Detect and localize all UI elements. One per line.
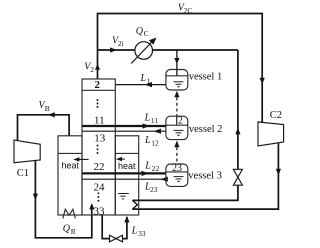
svg-text:2: 2 — [95, 79, 101, 91]
svg-text:22: 22 — [94, 161, 105, 173]
svg-text:vessel 2: vessel 2 — [189, 124, 223, 135]
svg-text:11: 11 — [94, 115, 105, 127]
svg-text:2i: 2i — [118, 39, 124, 48]
svg-text:heat: heat — [118, 161, 136, 171]
svg-text:L: L — [144, 113, 151, 124]
svg-text:2: 2 — [178, 115, 183, 126]
svg-text:Q: Q — [63, 223, 71, 234]
svg-text:Q: Q — [136, 26, 144, 37]
svg-text:33: 33 — [138, 229, 146, 238]
svg-text:23: 23 — [172, 163, 182, 174]
svg-text:24: 24 — [94, 182, 106, 194]
svg-text:12: 12 — [151, 138, 159, 147]
svg-text:22: 22 — [152, 164, 160, 173]
svg-text:C1: C1 — [17, 168, 29, 179]
svg-text:vessel 3: vessel 3 — [188, 170, 222, 181]
svg-text:2: 2 — [90, 65, 94, 74]
svg-text:L: L — [144, 135, 151, 146]
svg-text:11: 11 — [151, 116, 158, 125]
svg-text:R: R — [71, 227, 76, 236]
svg-text:23: 23 — [150, 185, 158, 194]
svg-text:L: L — [140, 73, 147, 84]
svg-text:C2: C2 — [270, 110, 282, 121]
svg-text:C: C — [144, 29, 149, 38]
svg-text:1: 1 — [147, 77, 151, 86]
svg-text:L: L — [131, 225, 138, 236]
svg-text:B: B — [45, 104, 50, 113]
svg-text:L: L — [144, 160, 151, 171]
svg-text:13: 13 — [94, 132, 106, 144]
svg-text:vessel 1: vessel 1 — [189, 72, 223, 83]
svg-text:heat: heat — [62, 161, 80, 171]
svg-text:33: 33 — [94, 205, 106, 217]
svg-text:2C: 2C — [184, 6, 193, 15]
